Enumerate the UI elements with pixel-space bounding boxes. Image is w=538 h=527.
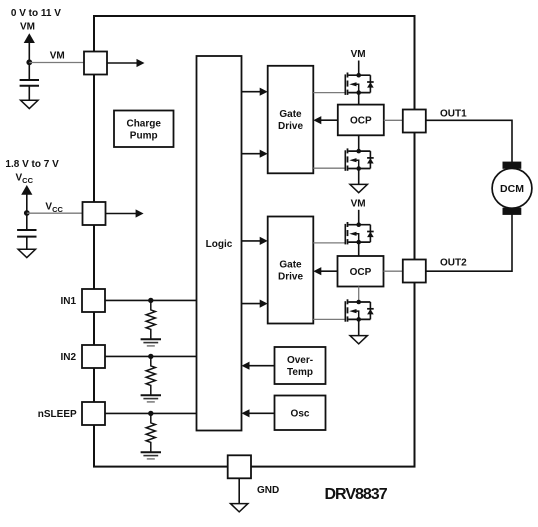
ground R3 bbox=[141, 452, 161, 459]
ground half-bridge 2 bbox=[350, 336, 367, 344]
svg-text:DRV8837: DRV8837 bbox=[325, 486, 388, 503]
block OCP1 bbox=[338, 105, 384, 136]
svg-text:Charge: Charge bbox=[126, 118, 161, 129]
svg-text:Logic: Logic bbox=[206, 239, 233, 250]
pin VM bbox=[84, 52, 107, 75]
svg-text:Drive: Drive bbox=[278, 121, 303, 132]
motor brush bottom bbox=[503, 208, 522, 215]
wire VCC to pin bbox=[27, 212, 83, 214]
arrow VCC internal bbox=[136, 209, 144, 217]
wire OUT1 to motor bbox=[426, 120, 512, 162]
block gate drive 2 bbox=[268, 217, 314, 324]
wire OCP1 to gate drive 1 bbox=[321, 119, 338, 121]
wire logic to gate drive 2 a bbox=[242, 240, 262, 242]
svg-text:OUT2: OUT2 bbox=[440, 257, 467, 268]
wire Q2 source to ground bbox=[358, 168, 360, 184]
svg-text:VM: VM bbox=[351, 49, 366, 60]
wire C2 to ground bbox=[26, 237, 28, 250]
block logic bbox=[197, 56, 242, 431]
svg-text:Drive: Drive bbox=[278, 272, 303, 283]
svg-text:IN1: IN1 bbox=[60, 296, 76, 307]
svg-text:0 V to 11 V: 0 V to 11 V bbox=[11, 8, 61, 19]
arrow into gate drive 1 a bbox=[260, 88, 268, 96]
svg-text:1.8 V to 7 V: 1.8 V to 7 V bbox=[5, 159, 59, 170]
arrow up VM supply bbox=[24, 33, 35, 43]
wire gate drive 2 to Q4 gate bbox=[313, 318, 345, 320]
wire VCC arrow stem bbox=[26, 194, 28, 230]
svg-text:Temp: Temp bbox=[287, 367, 313, 378]
wire gate drive 2 to Q3 gate bbox=[313, 242, 345, 244]
wire VM to Q1 drain bbox=[358, 61, 360, 76]
svg-text:nSLEEP: nSLEEP bbox=[38, 409, 77, 420]
wire Q1 source to OCP1 bbox=[358, 93, 360, 105]
ground VM supply bbox=[21, 100, 38, 108]
svg-text:Gate: Gate bbox=[279, 260, 302, 271]
transistor Q4 bbox=[345, 299, 373, 321]
junction dot IN2 bbox=[148, 354, 153, 359]
block osc bbox=[275, 396, 326, 431]
arrow over-temp into logic bbox=[242, 362, 250, 370]
block over-temp bbox=[275, 347, 326, 384]
resistor R2 bbox=[146, 356, 155, 395]
svg-text:VM: VM bbox=[50, 51, 65, 62]
resistor R1 bbox=[146, 300, 155, 339]
junction dot VM bbox=[26, 59, 32, 65]
arrow up VCC supply bbox=[21, 185, 32, 195]
wire C1 to ground bbox=[28, 86, 30, 101]
pin GND bbox=[228, 455, 251, 478]
resistor R3 bbox=[146, 413, 155, 452]
arrow OCP2 into gate drive 2 bbox=[313, 267, 321, 275]
wire gate drive 1 to Q1 gate bbox=[313, 92, 345, 94]
wire logic to gate drive 1 b bbox=[242, 153, 262, 155]
transistor Q2 bbox=[345, 148, 373, 170]
junction dot nSLEEP bbox=[148, 411, 153, 416]
junction dot IN1 bbox=[148, 298, 153, 303]
arrow into gate drive 2 a bbox=[260, 237, 268, 245]
wire gate drive 1 to Q2 gate bbox=[313, 167, 345, 169]
pin OUT2 bbox=[403, 260, 426, 283]
motor brush top bbox=[503, 162, 522, 169]
capacitor C1 bbox=[20, 79, 39, 81]
ground VCC supply bbox=[18, 249, 35, 257]
wire VCC internal bbox=[106, 213, 138, 215]
wire VM to Q3 drain bbox=[358, 210, 360, 225]
svg-text:GND: GND bbox=[257, 485, 279, 496]
arrow OCP1 into gate drive 1 bbox=[313, 116, 321, 124]
svg-text:DCM: DCM bbox=[500, 183, 524, 195]
motor DCM bbox=[492, 168, 532, 208]
svg-text:VM: VM bbox=[20, 22, 35, 33]
svg-text:VCC: VCC bbox=[16, 173, 34, 185]
svg-text:VM: VM bbox=[351, 198, 366, 209]
arrow into gate drive 1 b bbox=[260, 150, 268, 158]
wire VM internal bbox=[107, 62, 138, 64]
wire logic to gate drive 2 b bbox=[242, 303, 262, 305]
pin VCC bbox=[83, 202, 106, 225]
svg-text:Gate: Gate bbox=[279, 109, 302, 120]
transistor Q3 bbox=[345, 222, 373, 244]
wire nSLEEP to logic bbox=[105, 412, 197, 414]
svg-text:Osc: Osc bbox=[291, 408, 310, 419]
wire IN1 to logic bbox=[105, 299, 197, 301]
wire osc to logic bbox=[249, 412, 275, 414]
block OCP2 bbox=[338, 256, 384, 287]
ground R2 bbox=[141, 395, 161, 402]
device outline DRV8837 bbox=[94, 16, 415, 467]
svg-text:Over-: Over- bbox=[287, 355, 313, 366]
svg-text:OCP: OCP bbox=[350, 267, 372, 278]
wire over-temp to logic bbox=[249, 365, 275, 367]
junction dot VCC bbox=[24, 210, 30, 216]
block gate drive 1 bbox=[268, 66, 314, 174]
capacitor C2 bbox=[17, 229, 36, 231]
transistor Q1 bbox=[345, 73, 373, 95]
ground GND pin bbox=[231, 504, 248, 512]
pin OUT1 bbox=[403, 110, 426, 133]
wire OCP2 to OUT2 pin bbox=[384, 270, 404, 272]
svg-text:OUT1: OUT1 bbox=[440, 108, 467, 119]
svg-text:IN2: IN2 bbox=[60, 352, 76, 363]
wire logic to gate drive 1 a bbox=[242, 91, 262, 93]
block charge pump bbox=[114, 111, 174, 148]
arrow into gate drive 2 b bbox=[260, 300, 268, 308]
wire VM to pin bbox=[29, 62, 84, 64]
svg-text:OCP: OCP bbox=[350, 116, 372, 127]
wire GND pin to ground bbox=[238, 478, 240, 503]
wire Q4 source to ground bbox=[358, 319, 360, 335]
arrow osc into logic bbox=[242, 409, 250, 417]
svg-text:Pump: Pump bbox=[130, 130, 158, 141]
ground half-bridge 1 bbox=[350, 184, 367, 192]
wire OCP2 to gate drive 2 bbox=[321, 270, 338, 272]
ground R1 bbox=[141, 339, 161, 346]
wire OCP1 to OUT1 pin bbox=[384, 119, 403, 121]
wire motor to OUT2 bbox=[426, 215, 512, 272]
arrow VM internal bbox=[137, 59, 145, 67]
svg-text:VCC: VCC bbox=[45, 201, 63, 213]
wire OCP2 to Q4 drain bbox=[358, 287, 360, 303]
wire IN2 to logic bbox=[105, 355, 197, 357]
wire VM arrow stem bbox=[28, 42, 30, 80]
wire Q3 source to OCP2 bbox=[358, 243, 360, 256]
wire OCP1 to Q2 drain bbox=[358, 135, 360, 151]
